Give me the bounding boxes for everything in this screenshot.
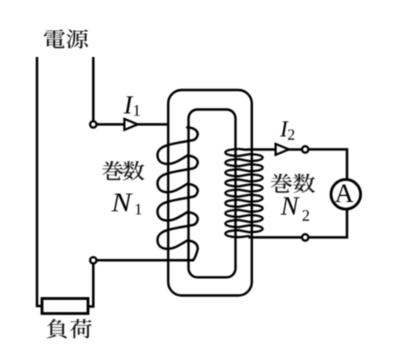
- core outer outline: [168, 90, 252, 296]
- current arrow I1: [124, 119, 137, 130]
- wire: primary bottom lead: [97, 259, 193, 262]
- wire: primary top lead: [97, 123, 169, 126]
- wire: secondary top lead: [247, 148, 302, 151]
- label 巻数 (N1 turns): [102, 161, 124, 180]
- label I2: [280, 121, 289, 136]
- label I1: [124, 96, 134, 113]
- terminal: secondary top: [302, 146, 308, 152]
- wire: load connection: [88, 264, 93, 307]
- secondary winding coil N2: [225, 149, 262, 237]
- label N2: [281, 197, 300, 214]
- label 負荷 (load): [47, 319, 67, 338]
- terminal: primary top: [90, 121, 96, 127]
- wire: to ammeter top: [309, 149, 347, 180]
- ammeter letter A: [335, 185, 354, 202]
- current arrow I2: [276, 144, 289, 155]
- terminal: primary bottom: [90, 257, 96, 263]
- ammeter body: [331, 180, 361, 210]
- wire: from ammeter bottom: [309, 209, 347, 237]
- wire: source left conductor: [37, 57, 41, 306]
- wire: source right conductor: [92, 57, 95, 121]
- label 電源 (power source): [44, 29, 65, 48]
- wire: secondary bottom lead: [249, 236, 302, 239]
- terminal: secondary bottom: [302, 234, 308, 240]
- core window outline: [189, 110, 236, 278]
- label N1: [111, 194, 132, 212]
- label 巻数 (N2 turns): [271, 174, 293, 193]
- primary winding coil N1: [157, 127, 197, 260]
- load resistor: [42, 299, 88, 314]
